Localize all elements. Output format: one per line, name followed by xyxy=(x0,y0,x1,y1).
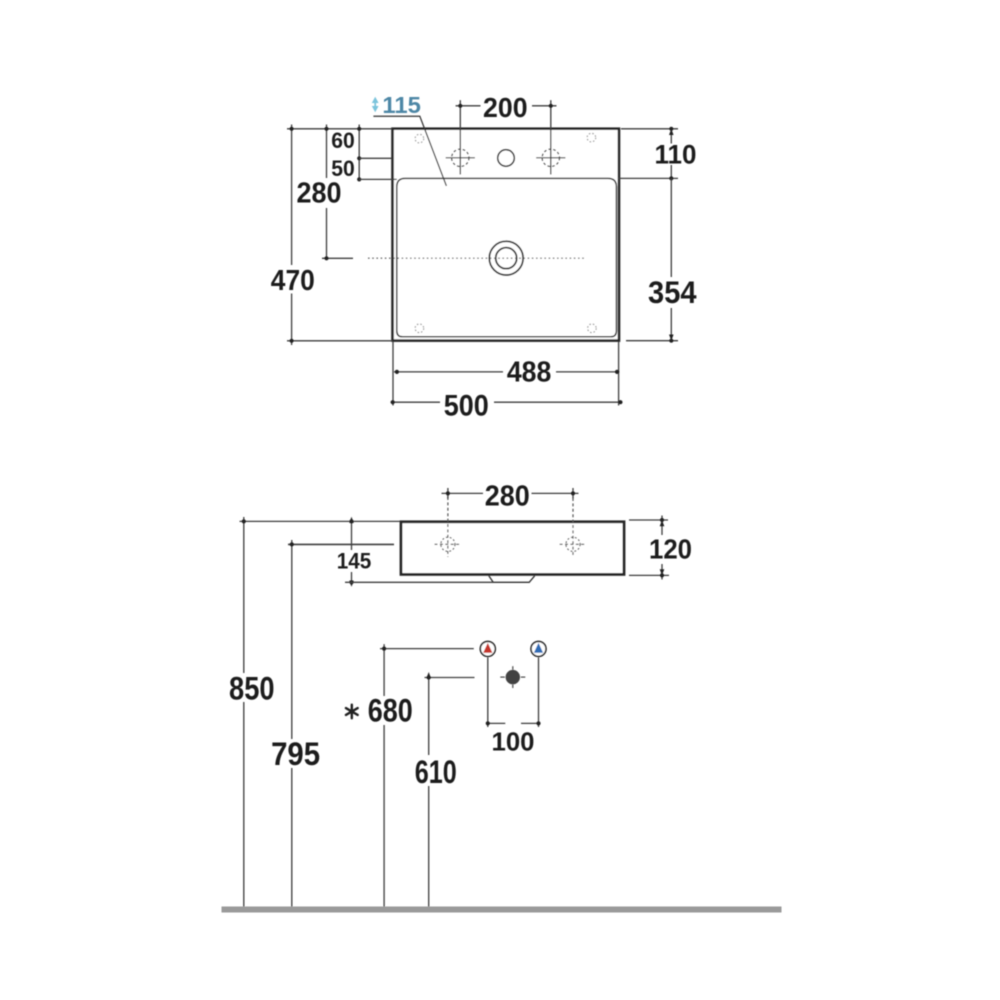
basin body (front view) xyxy=(401,522,624,575)
svg-text:470: 470 xyxy=(271,265,315,297)
drain outer circle (top view) xyxy=(489,241,523,275)
label 115 (blue) with up-down arrow symbol xyxy=(372,97,379,112)
extension line hot/cold axis to 680 xyxy=(380,648,474,650)
dimension 354 (bowl depth) xyxy=(670,178,672,340)
svg-text:354: 354 xyxy=(648,274,697,310)
extension line right top xyxy=(621,128,678,130)
drain inner circle (top view) xyxy=(496,248,517,269)
dimension 280 (drain center from top) xyxy=(322,125,353,259)
extension line 120 top xyxy=(629,519,668,521)
dimension 145 (rim to drain boss) xyxy=(351,521,353,582)
svg-text:850: 850 xyxy=(229,670,275,706)
dimension 680 (mixer height, asterisk) xyxy=(383,644,385,906)
extension line top-left (rim top edge) xyxy=(287,128,392,130)
svg-text:110: 110 xyxy=(655,139,697,169)
fixing hole left (front view, dashed) xyxy=(435,497,462,557)
svg-text:680: 680 xyxy=(368,692,413,728)
dimension 200 (hole spacing) xyxy=(456,100,557,174)
extension line faucet hole axis xyxy=(359,157,392,159)
waste pipe symbol (dark circle) xyxy=(506,670,520,684)
dimension 60 / 50 chain line xyxy=(358,125,360,180)
corner mounting hole bottom-right xyxy=(588,324,597,333)
dimension 110 (deck depth) xyxy=(670,129,672,179)
asterisk mark xyxy=(346,705,358,719)
extension line bottom-right vertical xyxy=(618,342,620,406)
dimension 850 (rim height) xyxy=(243,517,245,907)
extension line rim top to 850 xyxy=(240,520,401,522)
svg-text:795: 795 xyxy=(271,736,320,772)
dimension 120 (front height) xyxy=(661,516,663,580)
svg-text:200: 200 xyxy=(483,92,528,123)
extension line hole axis to 795 xyxy=(288,543,394,545)
svg-text:145: 145 xyxy=(337,548,372,573)
extension line inner rim top xyxy=(359,178,397,180)
svg-text:610: 610 xyxy=(415,754,457,790)
dimension 100 (hot/cold spacing) xyxy=(488,658,539,728)
extension line 120 bottom xyxy=(629,574,669,576)
svg-text:280: 280 xyxy=(485,481,530,513)
svg-text:115: 115 xyxy=(382,92,421,118)
faucet hole left (dashed crosshair circle) xyxy=(446,149,475,166)
svg-text:120: 120 xyxy=(649,534,692,565)
extension line right bottom xyxy=(626,340,678,342)
basin inner bowl rim (top view) xyxy=(397,178,617,336)
drain boss (front view trapezoid) xyxy=(489,576,535,583)
leader line for 115 xyxy=(373,116,446,186)
corner mounting hole top-left xyxy=(415,134,424,143)
dimension 280 (front fixing holes spacing) xyxy=(442,488,579,499)
hot water symbol (red) xyxy=(480,641,495,656)
floor line xyxy=(222,907,782,913)
extension line bottom-left vertical xyxy=(392,342,394,406)
cold water symbol (blue) xyxy=(531,641,546,656)
extension line drain boss bottom xyxy=(345,581,493,583)
svg-text:488: 488 xyxy=(507,357,552,389)
svg-text:100: 100 xyxy=(492,726,535,756)
svg-text:50: 50 xyxy=(331,156,355,181)
dimension 500 (overall width) xyxy=(391,401,623,403)
dimension 488 (inner width) xyxy=(394,371,620,373)
extension line right inner rim xyxy=(618,177,678,179)
dimension 795 (fixing hole height) xyxy=(291,540,293,907)
extension line waste axis to 610 xyxy=(425,677,475,679)
svg-text:500: 500 xyxy=(444,389,489,422)
corner mounting hole top-right xyxy=(587,133,596,142)
dimension 610 (waste height) xyxy=(428,678,430,907)
dimension 470 (overall depth) xyxy=(287,125,393,346)
faucet hole right (dashed crosshair circle) xyxy=(536,149,565,166)
basin outer rim (top view) xyxy=(393,129,620,341)
middle fixture hole xyxy=(498,150,515,167)
fixing hole right (front view, dashed) xyxy=(560,498,587,557)
drain dotted centerline xyxy=(368,257,584,259)
corner mounting hole bottom-left xyxy=(415,324,424,333)
svg-text:60: 60 xyxy=(331,128,355,153)
svg-text:280: 280 xyxy=(297,178,342,210)
